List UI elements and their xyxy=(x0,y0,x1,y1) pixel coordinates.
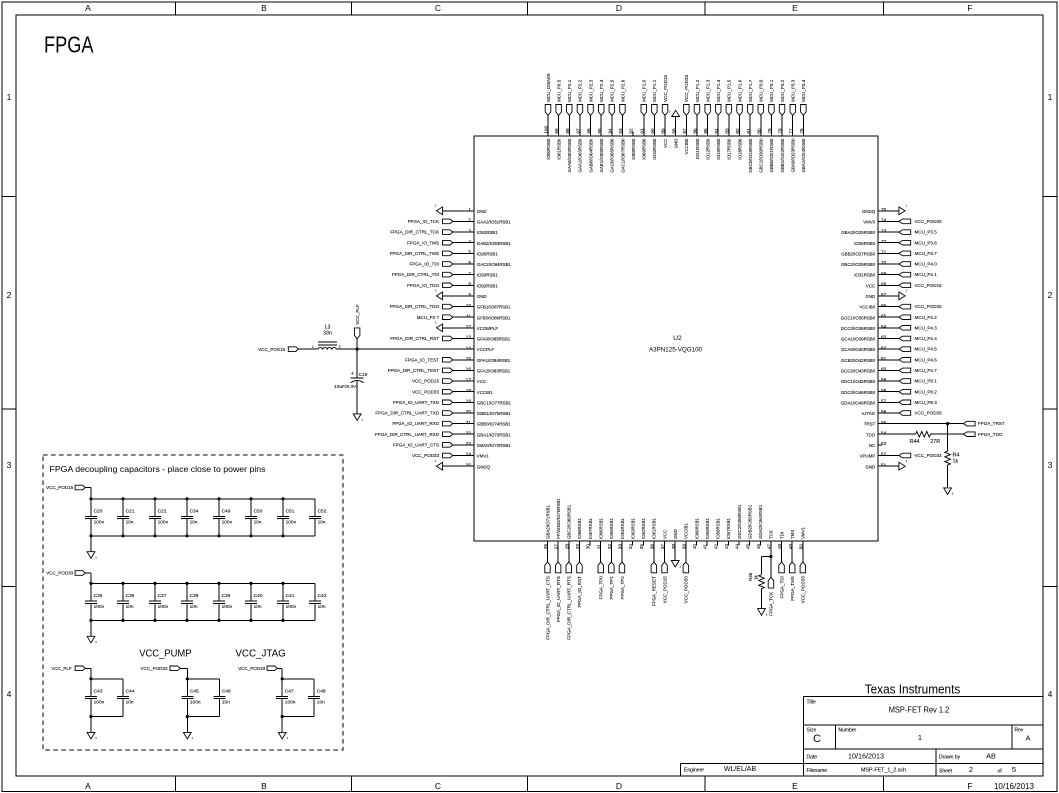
svg-text:GFA0/IO85RSB1: GFA0/IO85RSB1 xyxy=(477,337,511,342)
svg-text:IO93RSB1: IO93RSB1 xyxy=(477,273,499,278)
svg-text:C38: C38 xyxy=(190,593,199,599)
svg-text:100n: 100n xyxy=(190,699,201,705)
svg-text:MCU_P3.3: MCU_P3.3 xyxy=(791,79,796,102)
U2 pin 68 VCC / port VCC_POD15 xyxy=(866,282,942,289)
svg-text:C35: C35 xyxy=(94,593,103,599)
svg-text:1k: 1k xyxy=(753,574,758,580)
svg-text:FPGA_IO_TDO: FPGA_IO_TDO xyxy=(407,283,439,288)
U2 pin 89 VCC / port VCC_POD15 xyxy=(661,74,668,147)
svg-text:GNDQ: GNDQ xyxy=(862,209,876,214)
U2 pin 21 GBB0/IO74RSB1 / port FPGA_IO_UART_RXD xyxy=(392,420,511,427)
svg-text:FPGA_DIR_CTRL_TDO: FPGA_DIR_CTRL_TDO xyxy=(390,304,440,309)
svg-text:A: A xyxy=(1025,734,1030,743)
ground below rail xyxy=(278,717,288,741)
svg-text:IO61RSB1: IO61RSB1 xyxy=(652,517,657,539)
U2 pin 88 GND xyxy=(669,110,680,149)
svg-text:IO52RSB1: IO52RSB1 xyxy=(477,230,499,235)
port VCC_PLF (flag down) xyxy=(354,304,360,339)
svg-text:IO64RSB1: IO64RSB1 xyxy=(620,517,625,539)
svg-text:Rev: Rev xyxy=(1015,728,1024,734)
svg-text:FPGA_TP1: FPGA_TP1 xyxy=(609,576,614,600)
U2 pin 11 GFB0/IO86RSB1 / port MCU_P2.7 xyxy=(417,313,511,320)
U2 pin 83 IO17RSB0 / port MCU_P1.5 xyxy=(725,79,732,159)
svg-text:GBC2/IO29RSB0: GBC2/IO29RSB0 xyxy=(841,262,876,267)
svg-text:FPGA decoupling capacitors - p: FPGA decoupling capacitors - place close… xyxy=(50,464,266,474)
junction dots xyxy=(186,677,189,718)
U2 pin 4 GAB2/IO53RSB1 / port FPGA_IO_TMS xyxy=(407,239,511,246)
svg-text:4: 4 xyxy=(7,689,12,699)
svg-text:VCCIB1: VCCIB1 xyxy=(477,390,493,395)
svg-text:C43: C43 xyxy=(94,688,103,694)
svg-text:F: F xyxy=(967,3,972,13)
svg-text:100n: 100n xyxy=(286,519,297,525)
svg-text:VCC_POD33: VCC_POD33 xyxy=(801,576,806,604)
U2 pin 38 GND xyxy=(671,529,682,568)
resistor R44 27R xyxy=(910,431,941,445)
svg-text:1: 1 xyxy=(7,92,12,102)
U2 pin 35 IO62RSB1 xyxy=(639,517,646,549)
svg-text:10n: 10n xyxy=(190,604,198,610)
port VCC_PLF feeding C43/C44 xyxy=(51,666,85,671)
U2 pin 19 GBC1/IO77RSB1 / port FPGA_IO_UART_TXD xyxy=(393,399,512,406)
svg-text:C22: C22 xyxy=(158,508,167,514)
svg-text:100n: 100n xyxy=(158,519,169,525)
capacitor C43 100n xyxy=(85,679,105,717)
svg-text:FPGA_IO_UART_TXD: FPGA_IO_UART_TXD xyxy=(393,400,440,405)
U2 pin 81 GBC0/IO19RSB0 / port MCU_P1.7 xyxy=(746,79,753,172)
U2 pin 72 IO26RSB0 / port MCU_P3.6 xyxy=(854,239,937,246)
U2 pin 56 VJTAG / port VCC_POD33 xyxy=(861,409,942,416)
wire port to rail xyxy=(277,668,282,679)
ground below rail xyxy=(87,536,97,560)
port VCC_POD33 feeding C45/C46 xyxy=(140,666,180,671)
U2 pin 67 GND xyxy=(865,289,907,300)
svg-text:1k: 1k xyxy=(953,459,959,465)
svg-text:IO57RSB1: IO57RSB1 xyxy=(726,517,731,539)
svg-text:FPGA_TMS: FPGA_TMS xyxy=(790,576,795,601)
junction VCCPLF node xyxy=(356,348,359,351)
svg-text:MCU_P2.4: MCU_P2.4 xyxy=(599,79,604,102)
svg-text:VCCIB0: VCCIB0 xyxy=(859,305,875,310)
svg-text:GBA1/IO73RSB1: GBA1/IO73RSB1 xyxy=(477,432,511,437)
svg-text:Sheet: Sheet xyxy=(939,769,953,775)
svg-text:MCU_P4.2: MCU_P4.2 xyxy=(915,315,938,320)
svg-text:D: D xyxy=(616,3,622,13)
svg-text:IO18RSB0: IO18RSB0 xyxy=(737,138,742,160)
svg-text:Date: Date xyxy=(807,755,818,761)
svg-text:GBA1/IO24RSB0: GBA1/IO24RSB0 xyxy=(801,138,806,172)
svg-text:VCC_POD15: VCC_POD15 xyxy=(258,347,286,352)
U2 pin 78 GBB1/IO22RSB0 / port MCU_P3.2 xyxy=(778,79,785,172)
svg-text:C51: C51 xyxy=(286,508,295,514)
svg-text:IO15RSB0: IO15RSB0 xyxy=(716,138,721,160)
U2 pin 77 GBA0/IO23RSB0 / port MCU_P3.3 xyxy=(788,79,795,172)
svg-text:C52: C52 xyxy=(318,508,327,514)
svg-text:FPGA_IO_TMS: FPGA_IO_TMS xyxy=(407,240,439,245)
svg-text:FPGA_DIR_CTRL_UART_CTS: FPGA_DIR_CTRL_UART_CTS xyxy=(545,576,550,640)
power rail (top) xyxy=(91,582,315,584)
svg-text:C20: C20 xyxy=(94,508,103,514)
U2 pin 90 IO10RSB0 / port MCU_P1.1 xyxy=(650,79,657,159)
U2 pin 49 TMS / port FPGA_TMS xyxy=(788,530,795,601)
capacitor C42 10n xyxy=(309,583,327,620)
svg-text:10n: 10n xyxy=(317,699,325,705)
svg-text:GFB0/IO86RSB1: GFB0/IO86RSB1 xyxy=(477,315,511,320)
U2 pin 73 GBA2/IO25RSB0 / port MCU_P3.5 xyxy=(841,228,937,235)
svg-text:R44: R44 xyxy=(910,439,920,445)
svg-text:GBA0/IO72RSB1: GBA0/IO72RSB1 xyxy=(477,443,511,448)
svg-text:VCC_POD33: VCC_POD33 xyxy=(412,389,440,394)
svg-text:VCC_PLF: VCC_PLF xyxy=(51,666,72,671)
svg-text:L3: L3 xyxy=(325,324,331,330)
svg-text:VCC_POD15: VCC_POD15 xyxy=(46,485,74,490)
junction TRST/R4 xyxy=(946,422,949,425)
capacitor C34 10n xyxy=(181,499,199,536)
svg-text:FPGA_DIR_CTRL_RST: FPGA_DIR_CTRL_RST xyxy=(390,336,439,341)
port VCC_POD33 feeding decoupling row xyxy=(46,571,85,576)
power rail xyxy=(187,678,219,680)
svg-text:2: 2 xyxy=(7,290,12,300)
svg-text:IO01RSB0: IO01RSB0 xyxy=(556,138,561,160)
svg-text:FPGA_TP2: FPGA_TP2 xyxy=(620,576,625,600)
svg-text:MCU_P1.2: MCU_P1.2 xyxy=(695,79,700,102)
svg-text:10uF/6.3V: 10uF/6.3V xyxy=(334,384,357,390)
U2 pin 66 VCCIB0 / port VCC_POD33 xyxy=(859,303,942,310)
svg-text:MCU_P3.1: MCU_P3.1 xyxy=(769,79,774,102)
svg-text:MCU_P1.6: MCU_P1.6 xyxy=(737,79,742,102)
svg-text:Title: Title xyxy=(807,700,816,706)
U2 pin 55 TRST xyxy=(864,420,887,427)
svg-text:MCU_P2.6: MCU_P2.6 xyxy=(620,79,625,102)
svg-text:IO11RSB0: IO11RSB0 xyxy=(695,138,700,159)
capacitor C44 10n xyxy=(117,679,135,717)
capacitor C41 100n xyxy=(277,583,297,620)
U2 pin 50 VMV1 / port VCC_POD33 xyxy=(799,526,806,603)
U2 pin 65 GCC1/IO35RSB0 / port MCU_P4.2 xyxy=(841,313,937,320)
svg-text:C40: C40 xyxy=(254,593,263,599)
ground below rail xyxy=(87,717,97,741)
svg-text:VCC_POD15: VCC_POD15 xyxy=(662,576,667,604)
svg-text:MCU_DMAE0: MCU_DMAE0 xyxy=(546,73,551,102)
U2 pin 75 GNDQ xyxy=(862,203,907,214)
svg-text:B: B xyxy=(261,3,267,13)
U2 pin 85 IO12RSB0 / port MCU_P1.3 xyxy=(703,79,710,159)
U2 pin 98 GAA0/IO02RSB0 / port MCU_P2.1 xyxy=(565,79,572,172)
junction dots xyxy=(153,582,156,622)
svg-text:GAA2/IO51RSB1: GAA2/IO51RSB1 xyxy=(477,220,511,225)
junction dots xyxy=(281,677,284,718)
junction dots xyxy=(217,497,220,537)
svg-text:VCC_POD33: VCC_POD33 xyxy=(46,571,74,576)
svg-text:VCC_PLF: VCC_PLF xyxy=(355,304,360,325)
dashed box: FPGA decoupling capacitors xyxy=(43,455,343,750)
U2 pin 25 GNDQ xyxy=(435,459,491,470)
U2 pin 86 IO11RSB0 / port MCU_P1.2 xyxy=(693,79,700,159)
U2 pin 14 VCCPLF xyxy=(466,345,495,352)
svg-text:GAA0/IO02RSB0: GAA0/IO02RSB0 xyxy=(567,138,572,172)
U2 pin 57 GDA1/IO49RSB0 / port MCU_P8.3 xyxy=(841,399,937,406)
svg-text:C: C xyxy=(435,781,441,791)
svg-text:GFA1/IO84RSB1: GFA1/IO84RSB1 xyxy=(477,358,511,363)
wire port to rail xyxy=(85,573,91,583)
U2 pin 47 TCK xyxy=(767,530,774,549)
svg-text:IO00RSB0: IO00RSB0 xyxy=(546,138,551,160)
svg-text:MCU_P1.1: MCU_P1.1 xyxy=(652,79,657,102)
U2 pin 15 GFA1/IO84RSB1 / port FPGA_IO_TEST xyxy=(405,356,511,363)
svg-text:IO65RSB1: IO65RSB1 xyxy=(609,517,614,539)
wire port to rail xyxy=(180,668,187,679)
svg-text:1: 1 xyxy=(1048,92,1053,102)
U2 pin 51 GND xyxy=(865,459,907,470)
svg-text:VCC_POD33: VCC_POD33 xyxy=(915,453,943,458)
wire VCC_PLF to node xyxy=(356,339,358,349)
svg-text:C45: C45 xyxy=(190,688,199,694)
svg-text:GDA2/IO54RSB1: GDA2/IO54RSB1 xyxy=(758,504,763,539)
U2 pin 48 TDI / port FPGA_TDI xyxy=(777,532,784,599)
svg-text:GFB1/IO87RSB1: GFB1/IO87RSB1 xyxy=(477,305,511,310)
svg-text:TDI: TDI xyxy=(779,532,784,539)
U2 pin 9 GND xyxy=(435,289,487,300)
svg-text:GCA0/IO40RSB0: GCA0/IO40RSB0 xyxy=(841,347,876,352)
svg-text:TMS: TMS xyxy=(790,530,795,539)
svg-text:IO95RSB1: IO95RSB1 xyxy=(477,252,499,257)
ground below rail xyxy=(87,620,97,644)
U2 pin 76 GBA1/IO24RSB0 / port MCU_P3.4 xyxy=(799,79,806,172)
svg-text:VCC_PUMP: VCC_PUMP xyxy=(139,648,191,659)
svg-text:GFA2/IO83RSB1: GFA2/IO83RSB1 xyxy=(477,369,511,374)
svg-text:FF/GDB2/IO70RSB1: FF/GDB2/IO70RSB1 xyxy=(556,498,561,539)
capacitor C45 100n xyxy=(181,679,201,717)
capacitor C39 100n xyxy=(213,583,233,620)
svg-text:GND: GND xyxy=(865,464,875,469)
svg-text:GAA1/IO03RSB0: GAA1/IO03RSB0 xyxy=(578,138,583,172)
junction TCK/R45 xyxy=(769,555,772,558)
svg-text:10n: 10n xyxy=(126,604,134,610)
U2 pin 94 GAC0/IO06RSB0 / port MCU_P2.5 xyxy=(607,79,614,172)
svg-text:IO09RSB0: IO09RSB0 xyxy=(642,138,647,160)
U2 pin 54 TDO xyxy=(866,430,887,437)
svg-text:GAC1/IO07RSB0: GAC1/IO07RSB0 xyxy=(620,138,625,173)
capacitor C51 100n xyxy=(277,499,297,536)
svg-text:MCU_P3.7: MCU_P3.7 xyxy=(915,251,938,256)
svg-text:MCU_P8.2: MCU_P8.2 xyxy=(915,389,938,394)
svg-text:Texas Instruments: Texas Instruments xyxy=(865,682,961,697)
U2 pin 36 IO61RSB1 / port FPGA_RESET xyxy=(650,517,657,606)
svg-text:5: 5 xyxy=(1012,765,1016,774)
U2 pin 80 GBC1/IO20RSB0 / port MCU_P3.0 xyxy=(756,79,763,172)
svg-text:VCOMPLF: VCOMPLF xyxy=(477,326,499,331)
svg-text:VMV1: VMV1 xyxy=(801,526,806,539)
svg-text:2: 2 xyxy=(339,345,341,349)
svg-text:C46: C46 xyxy=(222,688,231,694)
capacitor C47 100n xyxy=(276,679,296,717)
U2 pin 79 GBB0/IO21RSB0 / port MCU_P3.1 xyxy=(767,79,774,172)
U2 pin 69 IO31RSB0 / port MCU_P4.1 xyxy=(854,271,937,278)
U2 pin 39 VCCIB1 / port VCC_POD33 xyxy=(681,523,688,604)
svg-text:IO62RSB1: IO62RSB1 xyxy=(641,517,646,539)
ground below R4 xyxy=(944,488,954,496)
U2 pin 22 GBA1/IO73RSB1 / port FPGA_DIR_CTRL_UART_RXD xyxy=(375,430,511,437)
resistor R4 1k (TRST pulldown) xyxy=(945,424,960,488)
svg-text:VCC: VCC xyxy=(663,139,668,148)
capacitor C36 10n xyxy=(117,583,135,620)
svg-text:of: of xyxy=(998,769,1003,775)
junction dots xyxy=(89,497,92,537)
junction dots xyxy=(281,582,284,622)
svg-text:GBA2/IO25RSB0: GBA2/IO25RSB0 xyxy=(841,230,875,235)
capacitor C52 10n xyxy=(309,499,327,536)
U2 pin 96 GAB0/IO04RSB0 / port MCU_P2.3 xyxy=(586,79,593,172)
svg-text:GAB1/IO05RSB0: GAB1/IO05RSB0 xyxy=(599,138,604,172)
svg-text:FPGA_TDO: FPGA_TDO xyxy=(978,432,1003,437)
U2 pin 2 GAA2/IO51RSB1 / port FPGA_IO_TCK xyxy=(408,218,512,225)
U2 pin 59 GDC1/IO45RSB0 / port MCU_P8.1 xyxy=(841,377,937,384)
U2 pin 26 GBA2/IO71RSB1 / port FPGA_DIR_CTRL_UART_CTS xyxy=(543,505,550,640)
junction dots xyxy=(217,582,220,622)
svg-text:MCU_P4.5: MCU_P4.5 xyxy=(915,347,938,352)
svg-text:FPGA_IO_TCK: FPGA_IO_TCK xyxy=(408,219,439,224)
wire L3 pin2 to U2 pin14 VCCPLF xyxy=(336,348,474,350)
svg-text:IO58RSB1: IO58RSB1 xyxy=(716,517,721,539)
svg-text:1: 1 xyxy=(312,345,314,349)
svg-text:FPGA_TP0: FPGA_TP0 xyxy=(599,576,604,600)
svg-text:VCC_POD33: VCC_POD33 xyxy=(915,304,943,309)
svg-text:C41: C41 xyxy=(286,593,295,599)
svg-text:MCU_P1.4: MCU_P1.4 xyxy=(716,79,721,102)
capacitor C40 10n xyxy=(245,583,263,620)
svg-text:IO68RSB1: IO68RSB1 xyxy=(577,517,582,539)
svg-text:MSP-FET_1_2.sch: MSP-FET_1_2.sch xyxy=(861,767,906,773)
svg-text:2: 2 xyxy=(969,765,973,774)
U2 pin 43 IO57RSB1 xyxy=(724,517,731,549)
svg-text:GBA0/IO23RSB0: GBA0/IO23RSB0 xyxy=(791,138,796,172)
U2 pin 30 IO67RSB1 xyxy=(586,517,593,549)
svg-text:VCC: VCC xyxy=(662,530,667,539)
svg-text:IO10RSB0: IO10RSB0 xyxy=(652,138,657,160)
U2 pin 97 GAA1/IO03RSB0 / port MCU_P2.2 xyxy=(576,79,583,172)
junction dots xyxy=(121,497,124,537)
svg-text:C49: C49 xyxy=(222,508,231,514)
net TRST: wire pin55 to FPGA_TRST port xyxy=(878,421,1005,426)
svg-text:10n: 10n xyxy=(126,699,134,705)
U2 pin 40 IO60RSB1 xyxy=(692,517,699,549)
svg-text:GND: GND xyxy=(673,529,678,539)
svg-text:GCC2/IO43RSB0: GCC2/IO43RSB0 xyxy=(841,369,876,374)
svg-text:IO12RSB0: IO12RSB0 xyxy=(705,138,710,160)
svg-text:TDO: TDO xyxy=(866,432,876,437)
svg-text:MCU_P4.7: MCU_P4.7 xyxy=(915,368,938,373)
ground below rail xyxy=(183,717,193,741)
svg-text:VCC_JTAG: VCC_JTAG xyxy=(235,648,285,659)
svg-text:C34: C34 xyxy=(190,508,199,514)
capacitor C48 10n xyxy=(308,679,326,717)
inductor L3 33n xyxy=(312,324,341,349)
svg-text:100n: 100n xyxy=(94,519,105,525)
svg-text:GCA1/IO39RSB0: GCA1/IO39RSB0 xyxy=(841,337,876,342)
capacitor C49 100n xyxy=(213,499,233,536)
svg-text:IO60RSB1: IO60RSB1 xyxy=(694,517,699,539)
svg-text:MCU_P3.6: MCU_P3.6 xyxy=(915,240,938,245)
svg-text:E: E xyxy=(792,781,798,791)
svg-text:C39: C39 xyxy=(222,593,231,599)
svg-text:MCU_P2.1: MCU_P2.1 xyxy=(567,79,572,102)
svg-text:MCU_P4.1: MCU_P4.1 xyxy=(915,272,938,277)
svg-text:A3PN125-VQG100: A3PN125-VQG100 xyxy=(649,347,702,354)
U2 pin 95 GAB1/IO05RSB0 / port MCU_P2.4 xyxy=(597,79,604,172)
junction dots xyxy=(121,582,124,622)
svg-text:FPGA_IO_UART_CTS: FPGA_IO_UART_CTS xyxy=(393,443,439,448)
svg-text:VCC_POD33: VCC_POD33 xyxy=(684,576,689,604)
svg-text:GBC1/IO20RSB0: GBC1/IO20RSB0 xyxy=(759,138,764,173)
svg-text:FPGA: FPGA xyxy=(44,31,94,57)
svg-text:IO08RSB0: IO08RSB0 xyxy=(631,138,636,160)
svg-text:VCCPLF: VCCPLF xyxy=(477,347,495,352)
U2 pin 29 IO68RSB1 / port FPGA_IO_RST xyxy=(575,517,582,607)
U2 pin 42 IO58RSB1 xyxy=(713,517,720,549)
U2 pin 28 GBC2/IO69RSB1 / port FPGA_DIR_CTRL_UART_RTS xyxy=(564,504,571,639)
U2 pin 32 IO65RSB1 / port FPGA_TP1 xyxy=(607,517,614,599)
svg-text:10n: 10n xyxy=(318,519,326,525)
svg-text:MCU_P3.4: MCU_P3.4 xyxy=(801,79,806,102)
capacitor C22 100n xyxy=(149,499,169,536)
svg-text:FPGA_RESET: FPGA_RESET xyxy=(652,576,657,606)
svg-text:10n: 10n xyxy=(254,519,262,525)
U2 pin 91 IO09RSB0 / port MCU_P1.0 xyxy=(639,79,646,159)
svg-text:VCC_POD15: VCC_POD15 xyxy=(915,283,943,288)
svg-text:100n: 100n xyxy=(158,604,169,610)
svg-text:FPGA_TDI: FPGA_TDI xyxy=(779,576,784,598)
svg-text:F: F xyxy=(967,781,972,791)
ground rail (bottom) xyxy=(91,535,315,537)
svg-text:TCK: TCK xyxy=(769,530,774,539)
wire VCC_POD15 to L3 pin1 xyxy=(299,348,319,350)
svg-text:C47: C47 xyxy=(285,688,294,694)
svg-text:MCU_P1.7: MCU_P1.7 xyxy=(748,79,753,102)
svg-text:GDC0/IO46RSB0: GDC0/IO46RSB0 xyxy=(841,390,876,395)
svg-text:MCU_P3.2: MCU_P3.2 xyxy=(780,79,785,102)
net TDO: wire pin54 via R44 to FPGA_TDO port xyxy=(878,432,1003,437)
capacitor C35 100n xyxy=(85,583,105,620)
svg-text:MSP-FET Rev 1.2: MSP-FET Rev 1.2 xyxy=(889,706,950,715)
svg-text:FPGA_DIR_CTRL_TMS: FPGA_DIR_CTRL_TMS xyxy=(390,251,439,256)
svg-text:FPGA_DIR_CTRL_UART_RXD: FPGA_DIR_CTRL_UART_RXD xyxy=(375,432,440,437)
svg-text:IO67RSB1: IO67RSB1 xyxy=(588,517,593,539)
svg-text:MCU_P1.5: MCU_P1.5 xyxy=(727,79,732,102)
svg-text:A: A xyxy=(85,3,91,13)
svg-text:10n: 10n xyxy=(254,604,262,610)
svg-text:100n: 100n xyxy=(286,604,297,610)
U2 pin 70 GBC2/IO29RSB0 / port MCU_P4.0 xyxy=(841,260,937,267)
power rail (top) xyxy=(91,498,315,500)
U2 pin 7 IO93RSB1 / port FPGA_DIR_CTRL_TDI xyxy=(392,271,498,278)
svg-text:WL/EL/AB: WL/EL/AB xyxy=(724,766,757,773)
capacitor C21 10n xyxy=(117,499,135,536)
svg-text:GND: GND xyxy=(477,209,487,214)
U2 pin 45 GDB2/IO55RSB1 xyxy=(745,504,752,549)
capacitor C19 10uF/6.3V (polarized) xyxy=(334,349,368,414)
svg-text:VCC_POD33: VCC_POD33 xyxy=(412,453,440,458)
svg-text:GCC1/IO35RSB0: GCC1/IO35RSB0 xyxy=(841,315,876,320)
U2 pin 92 IO08RSB0 xyxy=(629,128,636,160)
ground rail (bottom) xyxy=(91,619,315,621)
svg-text:GAC0/IO06RSB0: GAC0/IO06RSB0 xyxy=(610,138,615,173)
U2 pin 99 IO01RSB0 / port MCU_P9.5 xyxy=(554,79,561,159)
svg-text:10n: 10n xyxy=(190,519,198,525)
svg-text:GDA1/IO49RSB0: GDA1/IO49RSB0 xyxy=(841,400,876,405)
svg-text:D: D xyxy=(616,781,622,791)
svg-text:GDB2/IO55RSB1: GDB2/IO55RSB1 xyxy=(748,504,753,539)
svg-text:10n: 10n xyxy=(126,519,134,525)
